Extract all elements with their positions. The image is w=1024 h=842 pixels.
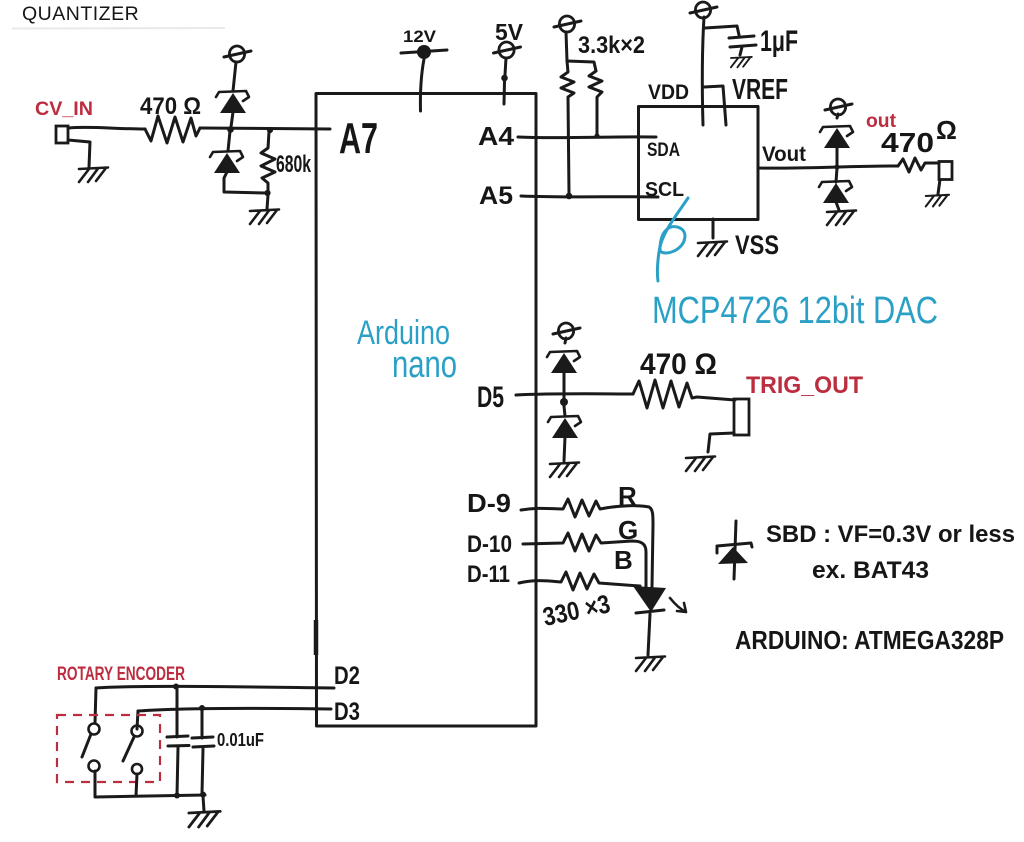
svg-text:Ω: Ω [936,115,957,145]
svg-text:VSS: VSS [735,230,779,260]
svg-text:nano: nano [392,344,457,386]
svg-text:470: 470 [881,127,934,158]
svg-text:D-11: D-11 [467,561,510,588]
svg-text:D-9: D-9 [467,488,511,518]
svg-text:1μF: 1μF [760,25,798,58]
svg-text:330 ×3: 330 ×3 [540,588,613,631]
svg-text:MCP4726 12bit DAC: MCP4726 12bit DAC [652,290,938,332]
svg-text:A5: A5 [479,182,513,210]
svg-text:ROTARY ENCODER: ROTARY ENCODER [57,664,185,685]
svg-text:B: B [614,545,633,575]
svg-text:D5: D5 [477,381,504,414]
svg-text:470 Ω: 470 Ω [140,93,201,120]
svg-text:VDD: VDD [648,81,689,104]
svg-text:CV_IN: CV_IN [35,99,93,120]
svg-text:D2: D2 [334,662,360,690]
svg-text:R: R [618,481,637,511]
svg-text:3.3k×2: 3.3k×2 [578,32,645,59]
svg-text:SDA: SDA [647,140,680,161]
svg-text:ex. BAT43: ex. BAT43 [812,557,929,584]
svg-text:680k: 680k [276,151,311,178]
svg-text:ARDUINO: ATMEGA328P: ARDUINO: ATMEGA328P [735,625,1004,655]
svg-text:VREF: VREF [732,74,788,106]
svg-text:12V: 12V [403,27,437,46]
svg-text:TRIG_OUT: TRIG_OUT [746,372,863,399]
svg-text:QUANTIZER: QUANTIZER [22,3,139,25]
svg-text:SCL: SCL [645,179,684,201]
svg-text:D3: D3 [334,698,360,726]
svg-text:0.01uF: 0.01uF [217,730,264,750]
svg-text:G: G [618,515,638,545]
svg-text:A7: A7 [339,114,378,163]
svg-text:Vout: Vout [762,143,806,166]
svg-text:SBD : VF=0.3V or less: SBD : VF=0.3V or less [766,521,1015,548]
svg-text:A4: A4 [478,121,515,151]
svg-text:470 Ω: 470 Ω [640,348,717,381]
svg-text:D-10: D-10 [467,531,512,558]
